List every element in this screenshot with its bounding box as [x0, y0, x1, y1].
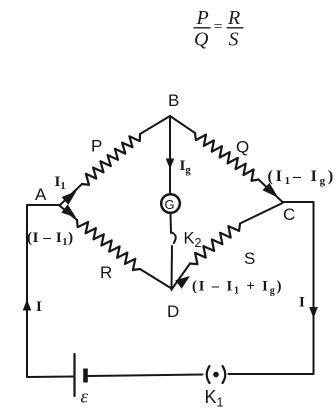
svg-text:I1: I1	[55, 174, 66, 192]
key K1 left paren	[207, 366, 210, 383]
battery plate short	[83, 369, 88, 383]
resistor S	[190, 224, 240, 265]
arrow I-I1+Ig on S near D	[175, 276, 190, 289]
arrow I left wire up	[23, 300, 32, 311]
svg-text:K2: K2	[184, 230, 202, 251]
svg-text:K1: K1	[205, 387, 224, 410]
svg-text:S: S	[244, 249, 255, 268]
wire B to Q zigzag	[170, 116, 195, 133]
wire B to P zigzag	[140, 116, 170, 134]
svg-text:D: D	[167, 302, 179, 321]
svg-text:Q: Q	[194, 29, 209, 51]
wire Q zigzag to C	[259, 180, 283, 203]
svg-text:R: R	[100, 263, 112, 282]
battery plate long	[73, 354, 75, 396]
arrow I1-Ig on Q near C	[263, 183, 279, 198]
key K1 right paren	[223, 366, 226, 383]
svg-text:I: I	[299, 295, 305, 311]
wire galvanometer to key K2	[170, 213, 173, 233]
svg-text:A: A	[35, 185, 47, 204]
svg-text:I: I	[36, 299, 42, 315]
wire C to S zigzag	[240, 203, 283, 224]
svg-text:G: G	[165, 197, 175, 212]
svg-text:C: C	[283, 205, 295, 224]
svg-text:S: S	[229, 29, 239, 51]
resistor R	[77, 220, 140, 270]
svg-text:B: B	[168, 91, 179, 110]
svg-text:P: P	[91, 137, 102, 156]
galvanometer G circle	[161, 194, 180, 213]
wire right vertical	[313, 202, 315, 374]
resistor Q	[195, 133, 259, 181]
wire battery to key K1	[88, 375, 203, 377]
key K2 hook	[171, 232, 176, 243]
arrow I1 on P near A	[62, 191, 77, 205]
svg-text:ε: ε	[81, 387, 89, 408]
wire R zigzag to D	[140, 269, 172, 289]
svg-text:=: =	[213, 19, 224, 36]
svg-text:(I – I1): (I – I1)	[27, 230, 74, 248]
svg-text:Ig: Ig	[180, 158, 192, 176]
wire B to galvanometer	[169, 116, 171, 194]
svg-text:P: P	[196, 7, 209, 29]
svg-text:(I – I1 + Ig): (I – I1 + Ig)	[192, 279, 283, 297]
wire A horizontal stub	[27, 204, 60, 206]
svg-text:(I1– Ig): (I1– Ig)	[268, 168, 335, 187]
arrow I right wire down	[309, 307, 318, 319]
wire left vertical	[26, 206, 28, 378]
wire A to P zigzag	[60, 184, 82, 205]
svg-text:R: R	[227, 7, 240, 29]
wire bottom left to battery	[27, 376, 74, 379]
wire key K1 to right corner	[229, 373, 314, 375]
resistor P	[82, 134, 140, 185]
arrow Ig middle	[166, 159, 175, 170]
svg-text:Q: Q	[236, 138, 249, 157]
wire K2 to D	[171, 246, 174, 290]
key K1 dot	[213, 372, 219, 378]
wire A to R zigzag	[60, 206, 77, 220]
wire S zigzag to D	[172, 264, 191, 290]
wire C horizontal	[283, 201, 314, 203]
arrow I-I1 on R near A	[61, 204, 76, 217]
